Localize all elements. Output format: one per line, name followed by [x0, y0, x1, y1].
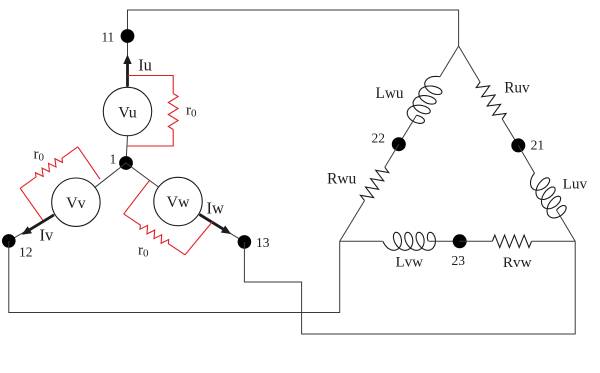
wire: resistor Rwu to bottom-left vertex — [340, 201, 365, 242]
svg-text:Iu: Iu — [138, 56, 152, 75]
svg-text:13: 13 — [256, 235, 270, 250]
inductor Lvw — [383, 232, 435, 250]
svg-text:Rvw: Rvw — [503, 254, 532, 271]
wire: inductor Luv to bottom-right vertex — [557, 210, 576, 241]
wire: apex to inductor Lwu — [440, 46, 459, 77]
resistor Rvw — [492, 235, 531, 247]
wire: resistor Rvw to bottom-right vertex — [532, 240, 576, 242]
svg-text:Luv: Luv — [563, 176, 588, 193]
wire: top bus from node 11 to delta apex — [128, 10, 459, 46]
arrow Iv (current direction) — [22, 215, 54, 235]
svg-text:Lvw: Lvw — [396, 254, 424, 270]
node 13 — [238, 235, 252, 249]
wire: apex to resistor Ruv — [459, 46, 481, 82]
resistor r0 in red loop around Vw — [124, 180, 213, 254]
wire: source Vw to node 13 — [199, 214, 245, 242]
svg-text:23: 23 — [452, 253, 466, 268]
wire: node 23 to resistor Rvw — [460, 240, 493, 242]
svg-text:21: 21 — [531, 138, 545, 153]
node 12 — [2, 234, 16, 248]
svg-text:22: 22 — [371, 130, 385, 145]
svg-text:1: 1 — [110, 151, 117, 166]
wire: inductor Lwu to node 22 — [399, 115, 417, 144]
wire: node 13 to delta bottom-right vertex — [244, 241, 575, 334]
wire: node 22 to resistor Rwu — [385, 144, 399, 167]
node 23 — [453, 234, 467, 248]
svg-text:Rwu: Rwu — [327, 171, 357, 188]
svg-text:r0: r0 — [138, 243, 149, 260]
node 1 (star point) — [119, 156, 133, 170]
svg-text:11: 11 — [101, 29, 114, 44]
wire: node 1 to source Vw — [126, 163, 159, 187]
svg-text:r0: r0 — [34, 147, 45, 164]
inductor Lwu — [407, 76, 442, 123]
arrow Iu (current direction) — [123, 55, 131, 87]
inductor Luv — [531, 173, 567, 218]
svg-text:Ruv: Ruv — [504, 79, 530, 96]
svg-text:Iv: Iv — [40, 226, 54, 245]
wire: resistor Ruv to node 21 — [502, 119, 518, 145]
resistor Rwu — [360, 167, 388, 200]
svg-text:Vw: Vw — [166, 194, 190, 211]
wire: inductor Lvw to node 23 — [429, 240, 460, 242]
source Vv — [52, 178, 100, 226]
svg-text:Iw: Iw — [207, 199, 224, 218]
svg-text:r0: r0 — [186, 103, 197, 120]
node 21 — [511, 138, 525, 152]
wire: source Vv to node 12 — [9, 214, 55, 241]
svg-text:12: 12 — [19, 245, 33, 260]
svg-text:Vv: Vv — [66, 195, 86, 212]
wire: bottom-left vertex to inductor Lvw — [340, 240, 383, 242]
wire: source Vu to node 1 — [126, 136, 128, 163]
svg-text:Lwu: Lwu — [376, 85, 404, 102]
source Vw — [154, 177, 202, 225]
svg-text:Vu: Vu — [118, 104, 137, 121]
source Vu — [103, 87, 151, 135]
node 11 — [121, 29, 135, 43]
arrow Iw (current direction) — [200, 215, 232, 235]
node 22 — [392, 137, 406, 151]
wire: node 12 to delta bottom-left vertex — [9, 241, 340, 313]
wire: node 21 to inductor Luv — [518, 145, 534, 173]
resistor Ruv — [476, 82, 506, 119]
resistor r0 in red loop around Vu — [128, 76, 179, 147]
wire: node 1 to source Vv — [95, 163, 126, 187]
wire: node 11 down to source Vu — [127, 36, 129, 87]
resistor r0 in red loop around Vv — [20, 147, 100, 221]
